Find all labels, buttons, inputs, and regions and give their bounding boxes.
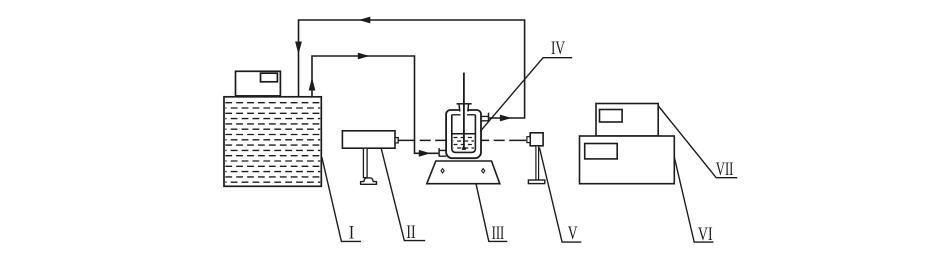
leader line IV	[480, 58, 572, 132]
inner vessel lip	[452, 114, 476, 116]
svg-text:V: V	[568, 223, 578, 244]
svg-text:VII: VII	[716, 159, 734, 180]
arrow up on supply riser	[309, 78, 316, 91]
arrow right into reactor inlet	[419, 150, 431, 157]
liquid dashes	[454, 138, 475, 149]
leader line I	[322, 157, 361, 241]
leader line VI	[674, 157, 713, 242]
arrow left on top return run	[359, 17, 371, 24]
laser II body	[342, 131, 395, 148]
svg-text:I: I	[349, 223, 354, 244]
arrow right on return pipe	[500, 115, 512, 122]
instrument box VI	[580, 136, 675, 184]
reactor III outer jacket	[446, 110, 481, 158]
laser stand post	[363, 148, 367, 177]
arrow right on supply horizontal	[358, 53, 370, 60]
svg-text:VI: VI	[698, 224, 713, 245]
optical axis dashed beam line	[398, 139, 527, 141]
thermostat controller box on tank	[236, 71, 281, 96]
water bath tank I	[224, 97, 321, 187]
detector V box	[530, 133, 543, 146]
VI display window	[585, 144, 618, 159]
reactor neck rim	[457, 103, 472, 105]
magnetic stirrer base trapezoid	[427, 161, 500, 184]
reactor neck	[459, 104, 469, 112]
controller display window	[261, 73, 278, 82]
VII display window	[600, 110, 623, 123]
laser aperture nozzle	[395, 138, 398, 143]
detector stand post	[536, 146, 539, 180]
detector lens stub	[527, 137, 530, 143]
arrow down into tank	[295, 42, 302, 55]
leader line II	[381, 148, 425, 240]
inner vessel	[452, 115, 476, 153]
svg-text:III: III	[492, 223, 505, 244]
left inlet flange	[438, 148, 440, 156]
reactor right outlet nozzle	[481, 116, 489, 120]
svg-text:II: II	[406, 222, 415, 243]
wire: return pipe from reactor to tank	[299, 20, 525, 118]
liquid surface	[452, 133, 476, 135]
water hatching inside tank	[225, 103, 320, 183]
stirrer knob diamond left	[441, 169, 444, 173]
laser stand foot	[361, 178, 377, 184]
reactor left inlet nozzle	[439, 150, 446, 156]
detector stand base	[528, 180, 544, 184]
stirrer shaft	[463, 73, 465, 149]
stirrer paddle tip	[462, 147, 466, 150]
leader line III	[476, 184, 507, 241]
svg-text:IV: IV	[551, 38, 565, 59]
leader line V	[539, 148, 581, 243]
leader line VII	[658, 106, 737, 178]
right outlet flange	[488, 113, 490, 122]
instrument box VII	[596, 104, 658, 137]
stirrer knob diamond right	[482, 169, 485, 173]
wire: supply pipe riser from tank	[312, 56, 438, 153]
